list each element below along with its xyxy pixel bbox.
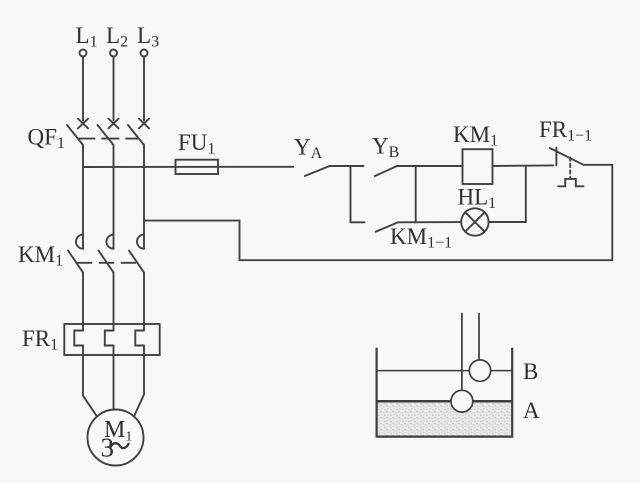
wire phase2 FR1 to motor [113,346,115,410]
wire right rail down [611,165,613,260]
tank left wall [376,348,378,437]
fuse FU1 [176,160,219,174]
wire rail coil-lamp right [525,166,527,222]
tank level A line [377,400,513,403]
svg-text:FU1: FU1 [178,130,215,158]
tank bottom [376,436,514,438]
lamp HL1 cross [465,212,484,231]
relay FR1 heater 1 [74,331,83,346]
wire FR1-1 output [584,164,613,166]
breaker QF1 pole 2 blade [98,125,114,145]
svg-text:FR1: FR1 [22,326,58,354]
wire phase3 KM1 to FR1 [143,273,145,331]
node L3 terminal [141,50,148,57]
contact FR1-1 riser [555,148,557,166]
motor M1 circle [88,410,144,466]
float rod B [478,313,480,360]
node L2 terminal [110,50,117,57]
breaker QF1 pole 3 contact X [139,119,149,129]
wire KM1-1 to HL1 [398,221,461,223]
switch YA blade [305,166,330,176]
motor tilde [110,443,128,448]
contactor KM1 pole 2 blade [99,251,114,273]
wire bottom return [240,259,613,261]
breaker QF1 pole 3 blade [128,125,144,145]
switch YB blade [375,166,397,176]
svg-text:L2: L2 [106,23,128,51]
wire phase1 FR1 to motor [83,346,97,417]
relay FR1 box [64,324,159,355]
svg-text:YA: YA [294,135,323,163]
contact FR1-1 blade [550,148,584,165]
breaker QF1 pole 1 contact X [78,119,88,129]
wire phase1 QF1 to KM1 [82,145,84,249]
tank group [376,313,514,437]
lamp HL1 circle [461,208,488,235]
svg-text:HL1: HL1 [458,185,497,213]
breaker QF1 pole 1 blade [67,125,83,145]
tank right wall [511,348,513,437]
svg-text:KM1: KM1 [453,122,498,150]
contact KM1-1 blade [376,222,398,232]
svg-text:B: B [523,359,538,384]
wire YB output to coil [397,165,463,167]
contactor KM1 pole 3 blade [129,251,144,273]
svg-text:FR1−1: FR1−1 [539,117,592,145]
contactor KM1 pole 3 arc [137,235,144,249]
node L1 terminal [80,50,87,57]
contact FR1-1 thermal symbol [558,179,583,186]
wire phase2 QF1 to KM1 [113,145,115,249]
wire junction rail [415,166,417,222]
breaker QF1 pole 2 contact X [109,119,119,129]
breaker QF1 linkage dashed [78,138,138,140]
wire coil to FR1-1 [493,164,554,167]
svg-text:L3: L3 [137,23,159,51]
wire phase3 QF1 to KM1 [143,145,145,249]
svg-text:A: A [523,398,540,423]
float rod A [461,313,463,391]
svg-text:QF1: QF1 [28,125,65,153]
wire L1 drop [82,57,84,121]
contactor KM1 pole 1 blade [68,251,83,273]
contact FR1-1 actuator dashed [569,158,571,178]
svg-text:KM1: KM1 [18,242,63,270]
wire L3 drop [143,57,145,121]
relay FR1 heater 2 [105,331,114,346]
float A circle [451,390,473,412]
coil KM1 [463,149,493,184]
wire phase1 KM1 to FR1 [82,273,84,331]
wire control bus from phase1 [83,166,294,168]
tank water fill [378,402,512,435]
contactor KM1 linkage dashed [78,262,136,264]
contactor KM1 pole 2 arc [106,235,113,249]
wire stub to KM1-1 [351,221,365,223]
tank level B line [377,370,513,372]
svg-text:KM1−1: KM1−1 [390,224,452,252]
relay FR1 heater 3 [135,331,144,346]
wire rail YA output down [350,166,352,222]
wire L2 drop [113,57,115,121]
contactor KM1 pole 1 arc [76,235,83,249]
svg-text:3: 3 [101,433,115,463]
wire phase2 KM1 to FR1 [113,273,115,331]
svg-text:YB: YB [372,134,399,162]
wire YA output [330,165,364,167]
wire phase3 tap to control return [144,221,240,261]
wire HL1 to rail [489,221,526,223]
wire phase3 FR1 to motor [134,346,144,417]
svg-text:L1: L1 [76,23,98,51]
float B circle [469,360,490,381]
